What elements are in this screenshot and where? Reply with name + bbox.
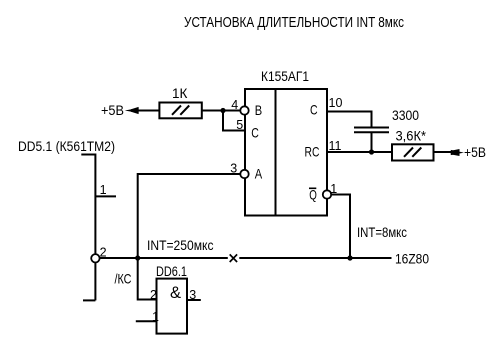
power +5B right arrow	[451, 150, 464, 155]
svg-text:+5В: +5В	[464, 144, 486, 160]
svg-text:DD5.1 (К561ТМ2): DD5.1 (К561ТМ2)	[18, 138, 115, 154]
wire pin 3 output stub	[187, 299, 201, 301]
wire to pin 3 (A)	[138, 174, 241, 258]
svg-text:DD6.1: DD6.1	[156, 263, 187, 279]
pin 4 inversion circle (input B)	[240, 106, 248, 114]
svg-text:10: 10	[329, 96, 343, 110]
svg-text:INT=250мкс: INT=250мкс	[147, 237, 214, 253]
wire junction down to pin5	[223, 111, 245, 131]
power +5B left arrow	[125, 108, 139, 113]
gate DD6.1 body	[157, 279, 188, 334]
op-amp U1 : multivibrator chip К155АГ1 body	[245, 89, 327, 216]
wire pin 1 input stub	[136, 320, 157, 322]
svg-text:К155АГ1: К155АГ1	[261, 68, 309, 84]
svg-text:RC: RC	[305, 144, 320, 160]
flip-flop DD5.1 partial symbol	[81, 155, 116, 301]
svg-text:INT=8мкс: INT=8мкс	[357, 224, 407, 240]
junction node pin4	[220, 108, 225, 113]
svg-text:11: 11	[329, 139, 342, 153]
wire junction down to DD6.1 pin2	[138, 258, 157, 300]
wire Q to bottom junction	[331, 195, 350, 259]
resistor R1 1K	[159, 103, 201, 119]
junction node left	[135, 255, 140, 260]
svg-text:3,6К*: 3,6К*	[396, 128, 427, 144]
capacitor C1 3300	[354, 128, 389, 153]
pin 1 inversion circle (output Q)	[323, 190, 331, 198]
svg-text:C: C	[251, 125, 259, 141]
wire main horizontal net INT left of cross	[100, 257, 228, 259]
svg-text:5: 5	[236, 118, 243, 132]
wire pin11 to resistor R2	[327, 151, 392, 153]
svg-text:УСТАНОВКА ДЛИТЕЛЬНОСТИ INT 8мк: УСТАНОВКА ДЛИТЕЛЬНОСТИ INT 8мкс	[184, 15, 404, 31]
wire R2 to +5V right	[434, 151, 454, 153]
wire R1 to pin4	[202, 110, 241, 112]
svg-text:A: A	[255, 166, 263, 182]
svg-text:16Z80: 16Z80	[395, 251, 429, 267]
svg-text:B: B	[255, 102, 262, 118]
wire +5V to resistor R1	[133, 110, 159, 112]
svg-text:+5В: +5В	[101, 102, 124, 118]
pin 3 inversion circle (input A)	[240, 170, 248, 178]
junction node cap/pin11	[369, 149, 374, 154]
svg-text:3300: 3300	[392, 107, 419, 123]
svg-text:3: 3	[230, 162, 237, 176]
wire pin10 to capacitor	[327, 112, 372, 128]
resistor R2 3,6K*	[392, 144, 434, 160]
svg-text:1К: 1К	[172, 86, 188, 101]
svg-text:/КС: /КС	[115, 271, 132, 287]
svg-text:1: 1	[100, 183, 107, 197]
wire main horizontal net INT right of cross	[239, 257, 391, 259]
junction node right	[347, 255, 352, 260]
cross mark on wire	[230, 254, 237, 262]
svg-text:&: &	[170, 284, 181, 302]
svg-text:C: C	[310, 102, 318, 118]
svg-text:4: 4	[231, 98, 238, 112]
pin 2 inversion circle of DD5.1	[91, 254, 99, 262]
svg-text:2: 2	[150, 288, 157, 302]
